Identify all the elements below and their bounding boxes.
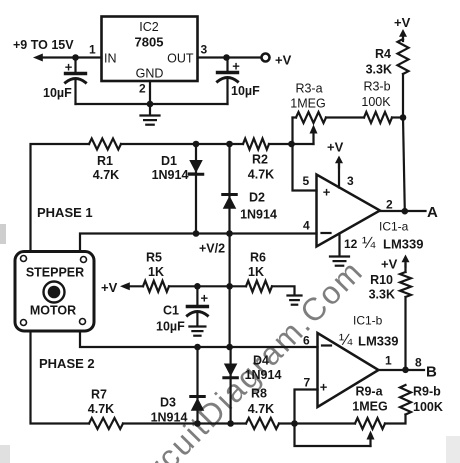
label IC1-b [353, 314, 383, 328]
node D3 top [194, 344, 201, 351]
wire R10 to node B [404, 297, 406, 370]
diode D1 [189, 144, 203, 234]
label +V at R4 [394, 15, 411, 30]
wire output B [379, 369, 425, 371]
label +9 TO 15V [13, 38, 74, 52]
pin 3 label [201, 43, 208, 57]
svg-text:R5: R5 [146, 251, 162, 265]
resistor R3-b [364, 112, 392, 123]
diode D3 [191, 347, 205, 424]
wire R3-a to R3-b [326, 116, 364, 118]
arrow +V pin3 [335, 156, 343, 168]
wire R8 to R9-a [279, 422, 355, 424]
label +V at R10 [381, 257, 398, 272]
motor screw bottom-right [80, 319, 86, 325]
svg-text:+: + [65, 60, 73, 75]
svg-text:+V: +V [394, 15, 411, 30]
svg-text:R7: R7 [91, 388, 107, 402]
svg-text:R9-a: R9-a [355, 385, 383, 399]
svg-text:R4: R4 [375, 47, 391, 61]
svg-text:7: 7 [304, 376, 311, 390]
pin 7 label [304, 376, 311, 390]
label D4 1N914 [245, 354, 282, 383]
label IC1-a [379, 220, 409, 234]
wire +V/2 rail to pin 4 [80, 234, 317, 252]
svg-text:+: + [201, 291, 209, 306]
node D2 bottom [226, 230, 233, 237]
diode D4 [224, 347, 238, 424]
wire phase2 top rail [80, 331, 318, 347]
pin 7 wire [295, 390, 318, 424]
label 10uF input [43, 86, 72, 100]
scan artifact left edge [0, 224, 460, 463]
label C1 [163, 304, 179, 318]
wire output A [380, 210, 426, 212]
svg-text:D3: D3 [160, 396, 176, 410]
wire R6 to ground [272, 286, 295, 295]
label D2 1N914 [240, 191, 277, 222]
pin 1 label [89, 43, 96, 57]
svg-text:A: A [427, 204, 438, 221]
svg-text:+: + [320, 380, 328, 395]
svg-text:100K: 100K [361, 95, 391, 109]
svg-text:100K: 100K [413, 400, 443, 414]
diode D2 [223, 144, 237, 234]
node input junction [72, 54, 79, 61]
resistor R9-b 100K [400, 385, 443, 415]
svg-text:D1: D1 [161, 154, 177, 168]
label +V at pin 3 [327, 140, 344, 155]
capacitor 10uF input [65, 58, 86, 105]
motor screw top-left [21, 256, 27, 262]
label D1 1N914 [152, 154, 189, 182]
node D1 top [193, 141, 200, 148]
wire mid vertical D2 to D4 [229, 234, 231, 348]
pin 2 label [386, 198, 393, 212]
pin 4 label [303, 219, 310, 233]
svg-text:10µF: 10µF [231, 84, 260, 98]
label PHASE 2 [39, 356, 95, 371]
arrow +V R5 [120, 282, 130, 290]
svg-text:+V: +V [381, 257, 398, 272]
ground under IC2 [141, 104, 160, 125]
pin 5 label [303, 174, 310, 188]
svg-text:IC1-a: IC1-a [379, 220, 409, 234]
node R2/R3-a junction [288, 141, 295, 148]
svg-text:D2: D2 [249, 191, 265, 205]
wire R1 to R2 rail [121, 143, 243, 145]
svg-text:MOTOR: MOTOR [30, 304, 76, 318]
op-amp IC1-a triangle [317, 175, 381, 247]
node mid rail [226, 283, 233, 290]
potentiometer R3-a [293, 112, 327, 144]
resistor R4 3.3K [366, 39, 409, 77]
svg-text:3: 3 [347, 174, 354, 188]
wire R4 to node [402, 74, 404, 118]
svg-text:R3-b: R3-b [363, 80, 390, 94]
svg-text:1MEG: 1MEG [352, 400, 387, 414]
svg-text:2: 2 [386, 198, 393, 212]
node pin7 bottom junction [291, 420, 298, 427]
stepper motor box [15, 252, 94, 332]
svg-text:PHASE 2: PHASE 2 [39, 356, 95, 371]
label D3 1N914 [151, 396, 188, 425]
terminal +V output circle [262, 54, 270, 62]
svg-text:6: 6 [303, 334, 310, 348]
ground C1 [189, 327, 205, 336]
pin 3 label [347, 174, 354, 188]
wire wiper loop to pin 7 node [295, 424, 371, 447]
wire phase1 top rail [31, 144, 90, 252]
svg-text:STEPPER: STEPPER [26, 266, 84, 280]
label +V/2 [199, 242, 225, 256]
svg-text:+V: +V [101, 280, 118, 295]
svg-text:1: 1 [89, 43, 96, 57]
wire arrow to R5 [128, 285, 143, 287]
svg-text:R6: R6 [250, 251, 266, 265]
dash D1 label to diode [189, 172, 195, 174]
node R4/R3-b junction [400, 114, 407, 121]
arrow +V R10 [402, 255, 410, 267]
svg-text:1N914: 1N914 [245, 368, 282, 382]
label 1/4 LM339 IC1-b [339, 332, 398, 349]
svg-text:1N914: 1N914 [240, 208, 277, 222]
node output junction [223, 54, 230, 61]
svg-text:3.3K: 3.3K [366, 63, 392, 77]
svg-text:1: 1 [385, 354, 392, 368]
svg-text:R9-b: R9-b [413, 385, 441, 399]
svg-text:+: + [323, 185, 331, 200]
svg-text:OUT: OUT [167, 52, 194, 66]
label +V output [275, 53, 292, 68]
svg-text:7805: 7805 [135, 35, 164, 50]
label 1/4 LM339 IC1-a [362, 235, 423, 252]
svg-text:+: + [232, 59, 240, 74]
svg-text:4: 4 [303, 219, 310, 233]
svg-text:GND: GND [136, 67, 164, 81]
svg-text:4.7K: 4.7K [248, 402, 274, 416]
svg-text:10µF: 10µF [156, 320, 185, 334]
svg-text:+V: +V [275, 53, 292, 68]
svg-text:2: 2 [139, 82, 146, 96]
label A [427, 204, 438, 221]
ground R6 [288, 296, 302, 305]
svg-text:+V: +V [327, 140, 344, 155]
node C1 top [194, 283, 201, 290]
label 10uF output [231, 84, 260, 98]
svg-text:IN: IN [104, 52, 117, 66]
svg-text:4.7K: 4.7K [93, 168, 119, 182]
wire pin 5 [293, 144, 317, 191]
wire input to IN pin [41, 56, 102, 58]
watermark CircuitDiagram.Com [117, 253, 370, 463]
label 10uF C1 [156, 320, 185, 334]
label R3-b 100K [361, 80, 391, 110]
wiper arrow R3-a [310, 125, 318, 145]
potentiometer R9-a 1MEG [352, 385, 387, 430]
svg-text:B: B [426, 364, 437, 381]
svg-text:1N914: 1N914 [152, 168, 189, 182]
svg-text:8: 8 [415, 356, 422, 370]
op-amp IC1-b triangle [318, 333, 379, 407]
capacitor 10uF output [218, 58, 241, 105]
svg-text:10µF: 10µF [43, 86, 72, 100]
node D4 bottom [227, 420, 234, 427]
node D2 top [226, 141, 233, 148]
wire pin 3 [338, 165, 340, 188]
wire R3-b to R4 node [392, 116, 403, 118]
resistor R2 4.7K [243, 139, 274, 182]
svg-text:IC1-b: IC1-b [353, 314, 383, 328]
svg-text:+9 TO 15V: +9 TO 15V [13, 38, 74, 52]
wire OUT to +V terminal [198, 56, 262, 58]
arrow +V R4 [399, 29, 407, 41]
svg-text:LM339: LM339 [358, 334, 398, 349]
pin 1 label [385, 354, 392, 368]
resistor R7 4.7K [88, 388, 123, 430]
wire R7 to R8 [123, 422, 246, 424]
svg-text:1MEG: 1MEG [290, 97, 325, 111]
motor screw bottom-left [21, 320, 27, 326]
wire arrow to R10 [404, 264, 406, 272]
node D4 top [226, 344, 233, 351]
wire R2 to wiper node [269, 143, 314, 145]
input supply arrow [33, 54, 43, 62]
label PHASE 1 [37, 205, 93, 220]
pin 12 wire and ground [330, 234, 349, 266]
wire phase2 bottom rail [31, 331, 90, 424]
svg-text:R2: R2 [252, 153, 268, 167]
pin 8 label [415, 356, 422, 370]
svg-text:PHASE 1: PHASE 1 [37, 205, 93, 220]
svg-text:R10: R10 [370, 273, 393, 287]
svg-text:4.7K: 4.7K [248, 168, 274, 182]
node D1 bottom [193, 230, 200, 237]
svg-text:1K: 1K [248, 265, 264, 279]
label B [426, 364, 437, 381]
node D3 bottom [194, 420, 201, 427]
motor shaft [44, 282, 65, 303]
svg-text:R1: R1 [97, 154, 113, 168]
wire R5 to R6 [169, 285, 246, 287]
motor screw top-right [81, 257, 87, 263]
svg-text:IC2: IC2 [139, 20, 159, 34]
label +V at R5 [101, 280, 118, 295]
pin 6 label [303, 334, 310, 348]
svg-text:5: 5 [303, 174, 310, 188]
node B junction [402, 367, 409, 374]
svg-text:LM339: LM339 [383, 237, 423, 252]
wire pin 2 to ground bus [149, 81, 151, 104]
svg-text:1K: 1K [148, 265, 164, 279]
wiper arrow R9-a [367, 431, 375, 447]
svg-text:¼: ¼ [362, 235, 376, 252]
label R3-a 1MEG [290, 82, 325, 111]
resistor R1 4.7K [89, 139, 121, 183]
svg-text:3.3K: 3.3K [369, 288, 395, 302]
svg-text:3: 3 [201, 43, 208, 57]
svg-text:12: 12 [344, 237, 358, 251]
svg-text:4.7K: 4.7K [88, 402, 114, 416]
node A junction [402, 208, 409, 215]
resistor R10 3.3K [369, 272, 411, 302]
wire node down to output A [403, 118, 405, 212]
node pin 2 junction [147, 101, 154, 108]
svg-text:R3-a: R3-a [295, 82, 322, 96]
svg-text:R8: R8 [251, 387, 267, 401]
resistor R6 1K [246, 251, 272, 292]
svg-text:C1: C1 [163, 304, 179, 318]
pin 12 label [344, 237, 358, 251]
pin 2 label [139, 82, 146, 96]
resistor R5 1K [143, 251, 169, 292]
wire R9-b to bottom rail [385, 415, 406, 424]
svg-text:D4: D4 [253, 354, 269, 368]
wire ground bus under IC2 [76, 103, 228, 105]
capacitor C1 10uF [187, 286, 208, 326]
resistor R8 4.7K [246, 387, 279, 430]
IC2 7805 regulator box [102, 17, 198, 82]
svg-text:+V/2: +V/2 [199, 242, 225, 256]
